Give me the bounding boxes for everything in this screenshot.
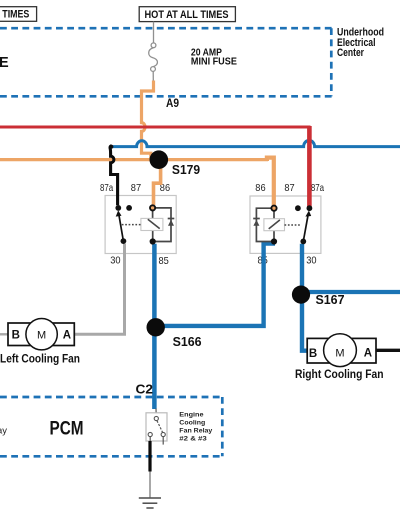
svg-text:86: 86 — [255, 182, 265, 194]
svg-text:HOT AT ALL TIMES: HOT AT ALL TIMES — [145, 9, 229, 21]
svg-text:Engine: Engine — [179, 411, 203, 418]
svg-text:Right Cooling Fan: Right Cooling Fan — [295, 367, 384, 381]
svg-text:C2: C2 — [136, 381, 154, 396]
svg-text:Center: Center — [337, 47, 364, 59]
svg-text:S166: S166 — [173, 335, 202, 349]
svg-text:B: B — [12, 330, 20, 342]
svg-text:S167: S167 — [316, 293, 345, 307]
svg-text:ay: ay — [0, 426, 8, 436]
svg-text:87: 87 — [284, 182, 294, 194]
svg-text:S179: S179 — [172, 162, 200, 177]
svg-text:A9: A9 — [166, 98, 179, 110]
svg-text:87a: 87a — [100, 182, 113, 194]
svg-text:E: E — [0, 55, 9, 71]
svg-text:#2 & #3: #2 & #3 — [179, 436, 207, 443]
svg-text:Left Cooling Fan: Left Cooling Fan — [0, 351, 80, 365]
svg-text:A: A — [63, 330, 71, 342]
svg-text:30: 30 — [306, 255, 316, 267]
svg-text:Cooling: Cooling — [179, 419, 205, 426]
svg-text:30: 30 — [110, 254, 120, 266]
svg-text:M: M — [37, 330, 46, 342]
svg-text:M: M — [335, 348, 344, 360]
svg-text:MINI FUSE: MINI FUSE — [191, 57, 237, 68]
svg-text:B: B — [309, 348, 317, 360]
svg-text:PCM: PCM — [50, 418, 84, 440]
svg-text:85: 85 — [159, 255, 169, 267]
svg-text:Fan Relay: Fan Relay — [179, 427, 212, 434]
svg-text:TIMES: TIMES — [2, 9, 29, 21]
svg-text:A: A — [364, 347, 372, 359]
svg-text:87a: 87a — [311, 182, 324, 194]
svg-text:87: 87 — [131, 182, 141, 194]
